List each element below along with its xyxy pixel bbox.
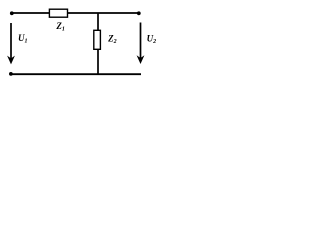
wire bottom	[11, 73, 141, 75]
node top-right	[137, 11, 141, 15]
arrow U1 (shaft)	[10, 23, 12, 60]
node top-left	[10, 11, 14, 15]
svg-text:U2: U2	[147, 34, 157, 45]
wire top-left (node to Z1)	[11, 12, 50, 14]
arrow U2 (shaft)	[140, 23, 142, 60]
wire junction down to Z2	[97, 13, 99, 31]
arrow U2 (head)	[137, 55, 145, 64]
wire top-right (Z1 to node)	[68, 12, 140, 14]
impedance Z1	[49, 9, 67, 17]
svg-text:Z1: Z1	[55, 21, 65, 32]
wire Z2 to bottom	[97, 49, 99, 74]
arrow U1 (head)	[7, 56, 15, 65]
svg-text:Z2: Z2	[107, 34, 117, 45]
svg-text:U1: U1	[18, 33, 28, 44]
impedance Z2	[94, 30, 101, 49]
node bottom-left	[9, 72, 13, 76]
